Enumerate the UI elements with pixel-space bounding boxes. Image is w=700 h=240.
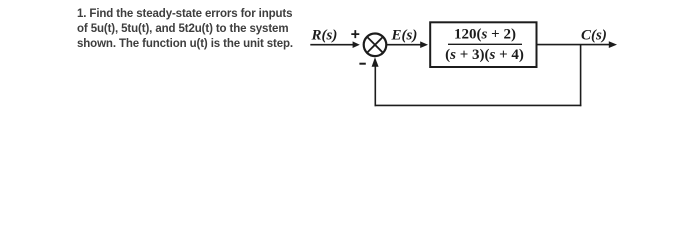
svg-text:C(s): C(s) — [581, 27, 607, 43]
problem statement text — [77, 7, 309, 53]
block G(s) transfer function box — [430, 22, 536, 67]
svg-text:E(s): E(s) — [391, 28, 418, 44]
svg-text:R(s): R(s) — [311, 28, 338, 44]
svg-text:120(s + 2): 120(s + 2) — [454, 26, 516, 42]
wire block output to C(s) — [538, 44, 611, 46]
summing junction X diagonal 1 — [367, 37, 383, 53]
arrowhead feedback into summing junction — [372, 57, 379, 67]
wire feedback vertical up into summing junction — [374, 64, 376, 106]
plus sign at summing junction input — [351, 30, 359, 38]
minus sign at feedback input — [359, 63, 365, 65]
wire summing junction to block G(s) — [387, 44, 421, 46]
arrowhead into summing junction — [353, 41, 360, 48]
wire input R(s) to summing junction — [310, 44, 354, 46]
wire feedback takeoff vertical down — [580, 45, 582, 107]
svg-text:(s + 3)(s + 4): (s + 3)(s + 4) — [445, 47, 524, 63]
fraction bar — [448, 43, 522, 45]
summing junction circle — [364, 34, 387, 57]
summing junction X diagonal 2 — [367, 37, 383, 53]
arrowhead output C(s) — [609, 41, 617, 48]
arrowhead into block — [420, 41, 428, 48]
wire feedback bottom horizontal — [375, 104, 582, 106]
